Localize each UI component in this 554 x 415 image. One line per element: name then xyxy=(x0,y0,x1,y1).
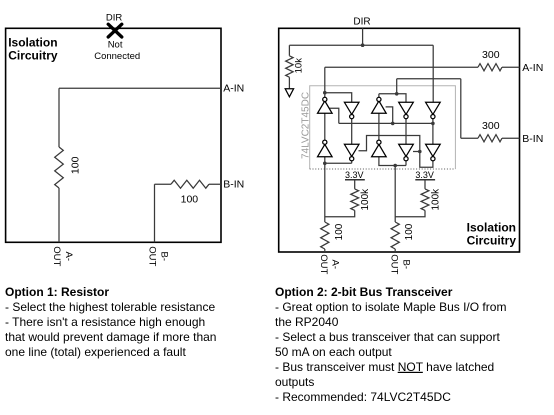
svg-text:Not: Not xyxy=(108,39,123,50)
svg-text:OUT: OUT xyxy=(51,246,62,266)
svg-text:- Bus transceiver must NOT hav: - Bus transceiver must NOT have latched xyxy=(275,360,494,374)
svg-text:10k: 10k xyxy=(293,58,304,74)
svg-text:100: 100 xyxy=(181,194,199,206)
svg-text:Circuitry: Circuitry xyxy=(467,234,517,248)
svg-text:100: 100 xyxy=(404,223,415,240)
svg-text:Isolation: Isolation xyxy=(467,220,516,234)
svg-text:100: 100 xyxy=(69,156,81,174)
svg-text:3.3V: 3.3V xyxy=(345,170,364,180)
svg-text:one line (total) experienced a: one line (total) experienced a fault xyxy=(5,345,186,359)
svg-text:- Great option to isolate Mapl: - Great option to isolate Maple Bus I/O … xyxy=(275,300,506,314)
svg-text:100k: 100k xyxy=(430,188,441,211)
svg-text:Circuitry: Circuitry xyxy=(8,49,58,63)
svg-text:that would prevent damage if m: that would prevent damage if more than xyxy=(5,330,216,344)
svg-text:B-IN: B-IN xyxy=(223,179,244,191)
svg-text:Connected: Connected xyxy=(94,51,140,62)
svg-text:the RP2040: the RP2040 xyxy=(275,315,339,329)
svg-text:A-: A- xyxy=(63,252,74,262)
svg-text:OUT: OUT xyxy=(147,246,158,266)
svg-text:OUT: OUT xyxy=(388,254,399,274)
svg-text:50 mA on each output: 50 mA on each output xyxy=(275,345,392,359)
svg-text:B-: B- xyxy=(159,252,170,262)
svg-text:300: 300 xyxy=(482,49,500,61)
svg-text:outputs: outputs xyxy=(275,375,314,389)
svg-text:A-IN: A-IN xyxy=(223,83,244,95)
svg-text:A-IN: A-IN xyxy=(522,62,543,74)
svg-text:DIR: DIR xyxy=(353,17,370,28)
svg-text:OUT: OUT xyxy=(318,254,329,274)
svg-text:74LVC2T45DC: 74LVC2T45DC xyxy=(301,92,312,159)
svg-text:- Select a bus transceiver tha: - Select a bus transceiver that can supp… xyxy=(275,330,500,344)
svg-text:Option 2: 2-bit Bus Transceive: Option 2: 2-bit Bus Transceiver xyxy=(275,285,453,299)
svg-text:300: 300 xyxy=(482,120,500,132)
svg-text:100k: 100k xyxy=(360,188,371,211)
svg-text:DIR: DIR xyxy=(106,13,123,24)
svg-text:3.3V: 3.3V xyxy=(415,170,434,180)
svg-text:B-: B- xyxy=(400,260,411,270)
svg-text:Isolation: Isolation xyxy=(8,35,57,49)
svg-text:- Recommended: 74LVC2T45DC: - Recommended: 74LVC2T45DC xyxy=(275,390,451,404)
svg-text:Option 1: Resistor: Option 1: Resistor xyxy=(5,285,109,299)
svg-text:- There isn't a resistance hig: - There isn't a resistance high enough xyxy=(5,315,205,329)
svg-text:A-: A- xyxy=(330,260,341,270)
svg-text:100: 100 xyxy=(334,223,345,240)
svg-text:- Select the highest tolerable: - Select the highest tolerable resistanc… xyxy=(5,300,215,314)
svg-text:B-IN: B-IN xyxy=(522,133,543,145)
